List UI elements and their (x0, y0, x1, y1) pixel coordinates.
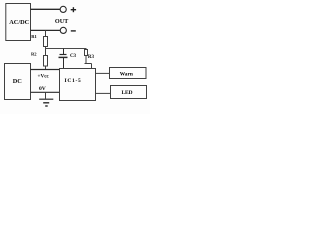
wire (96, 92, 111, 94)
svg-text:R2: R2 (31, 52, 37, 57)
block IC1-5 (60, 69, 96, 101)
label + (71, 7, 76, 12)
wire (31, 29, 61, 31)
terminal OUT+ (60, 6, 66, 12)
svg-text:AC/DC: AC/DC (9, 19, 29, 26)
label - (71, 30, 76, 32)
svg-text:R3: R3 (88, 55, 95, 60)
wire (45, 66, 47, 70)
ground (39, 99, 53, 106)
svg-text:0V: 0V (39, 86, 46, 92)
resistor R2 (44, 56, 48, 67)
terminal OUT- (60, 27, 66, 33)
svg-text:C3: C3 (70, 54, 77, 59)
wire (96, 72, 110, 74)
resistor R1 (44, 37, 48, 47)
block DC (5, 64, 31, 100)
wire (45, 92, 47, 99)
svg-text:OUT: OUT (55, 18, 69, 25)
wire 0V (31, 91, 60, 93)
svg-text:LED: LED (121, 90, 132, 96)
wire (45, 30, 47, 36)
svg-text:Warn: Warn (120, 71, 133, 77)
block AC/DC (6, 4, 31, 41)
resistor R3 (85, 50, 92, 69)
svg-text:+Vcc: +Vcc (38, 74, 50, 80)
block LED (111, 86, 147, 99)
wire node (46, 48, 87, 50)
svg-text:IC1-5: IC1-5 (65, 78, 82, 84)
block Warn (110, 68, 147, 79)
capacitor C3 (59, 49, 68, 69)
wire (45, 47, 47, 56)
svg-text:DC: DC (13, 78, 23, 85)
svg-text:R1: R1 (31, 34, 37, 39)
wire +Vcc (31, 69, 60, 71)
wire (31, 8, 61, 10)
